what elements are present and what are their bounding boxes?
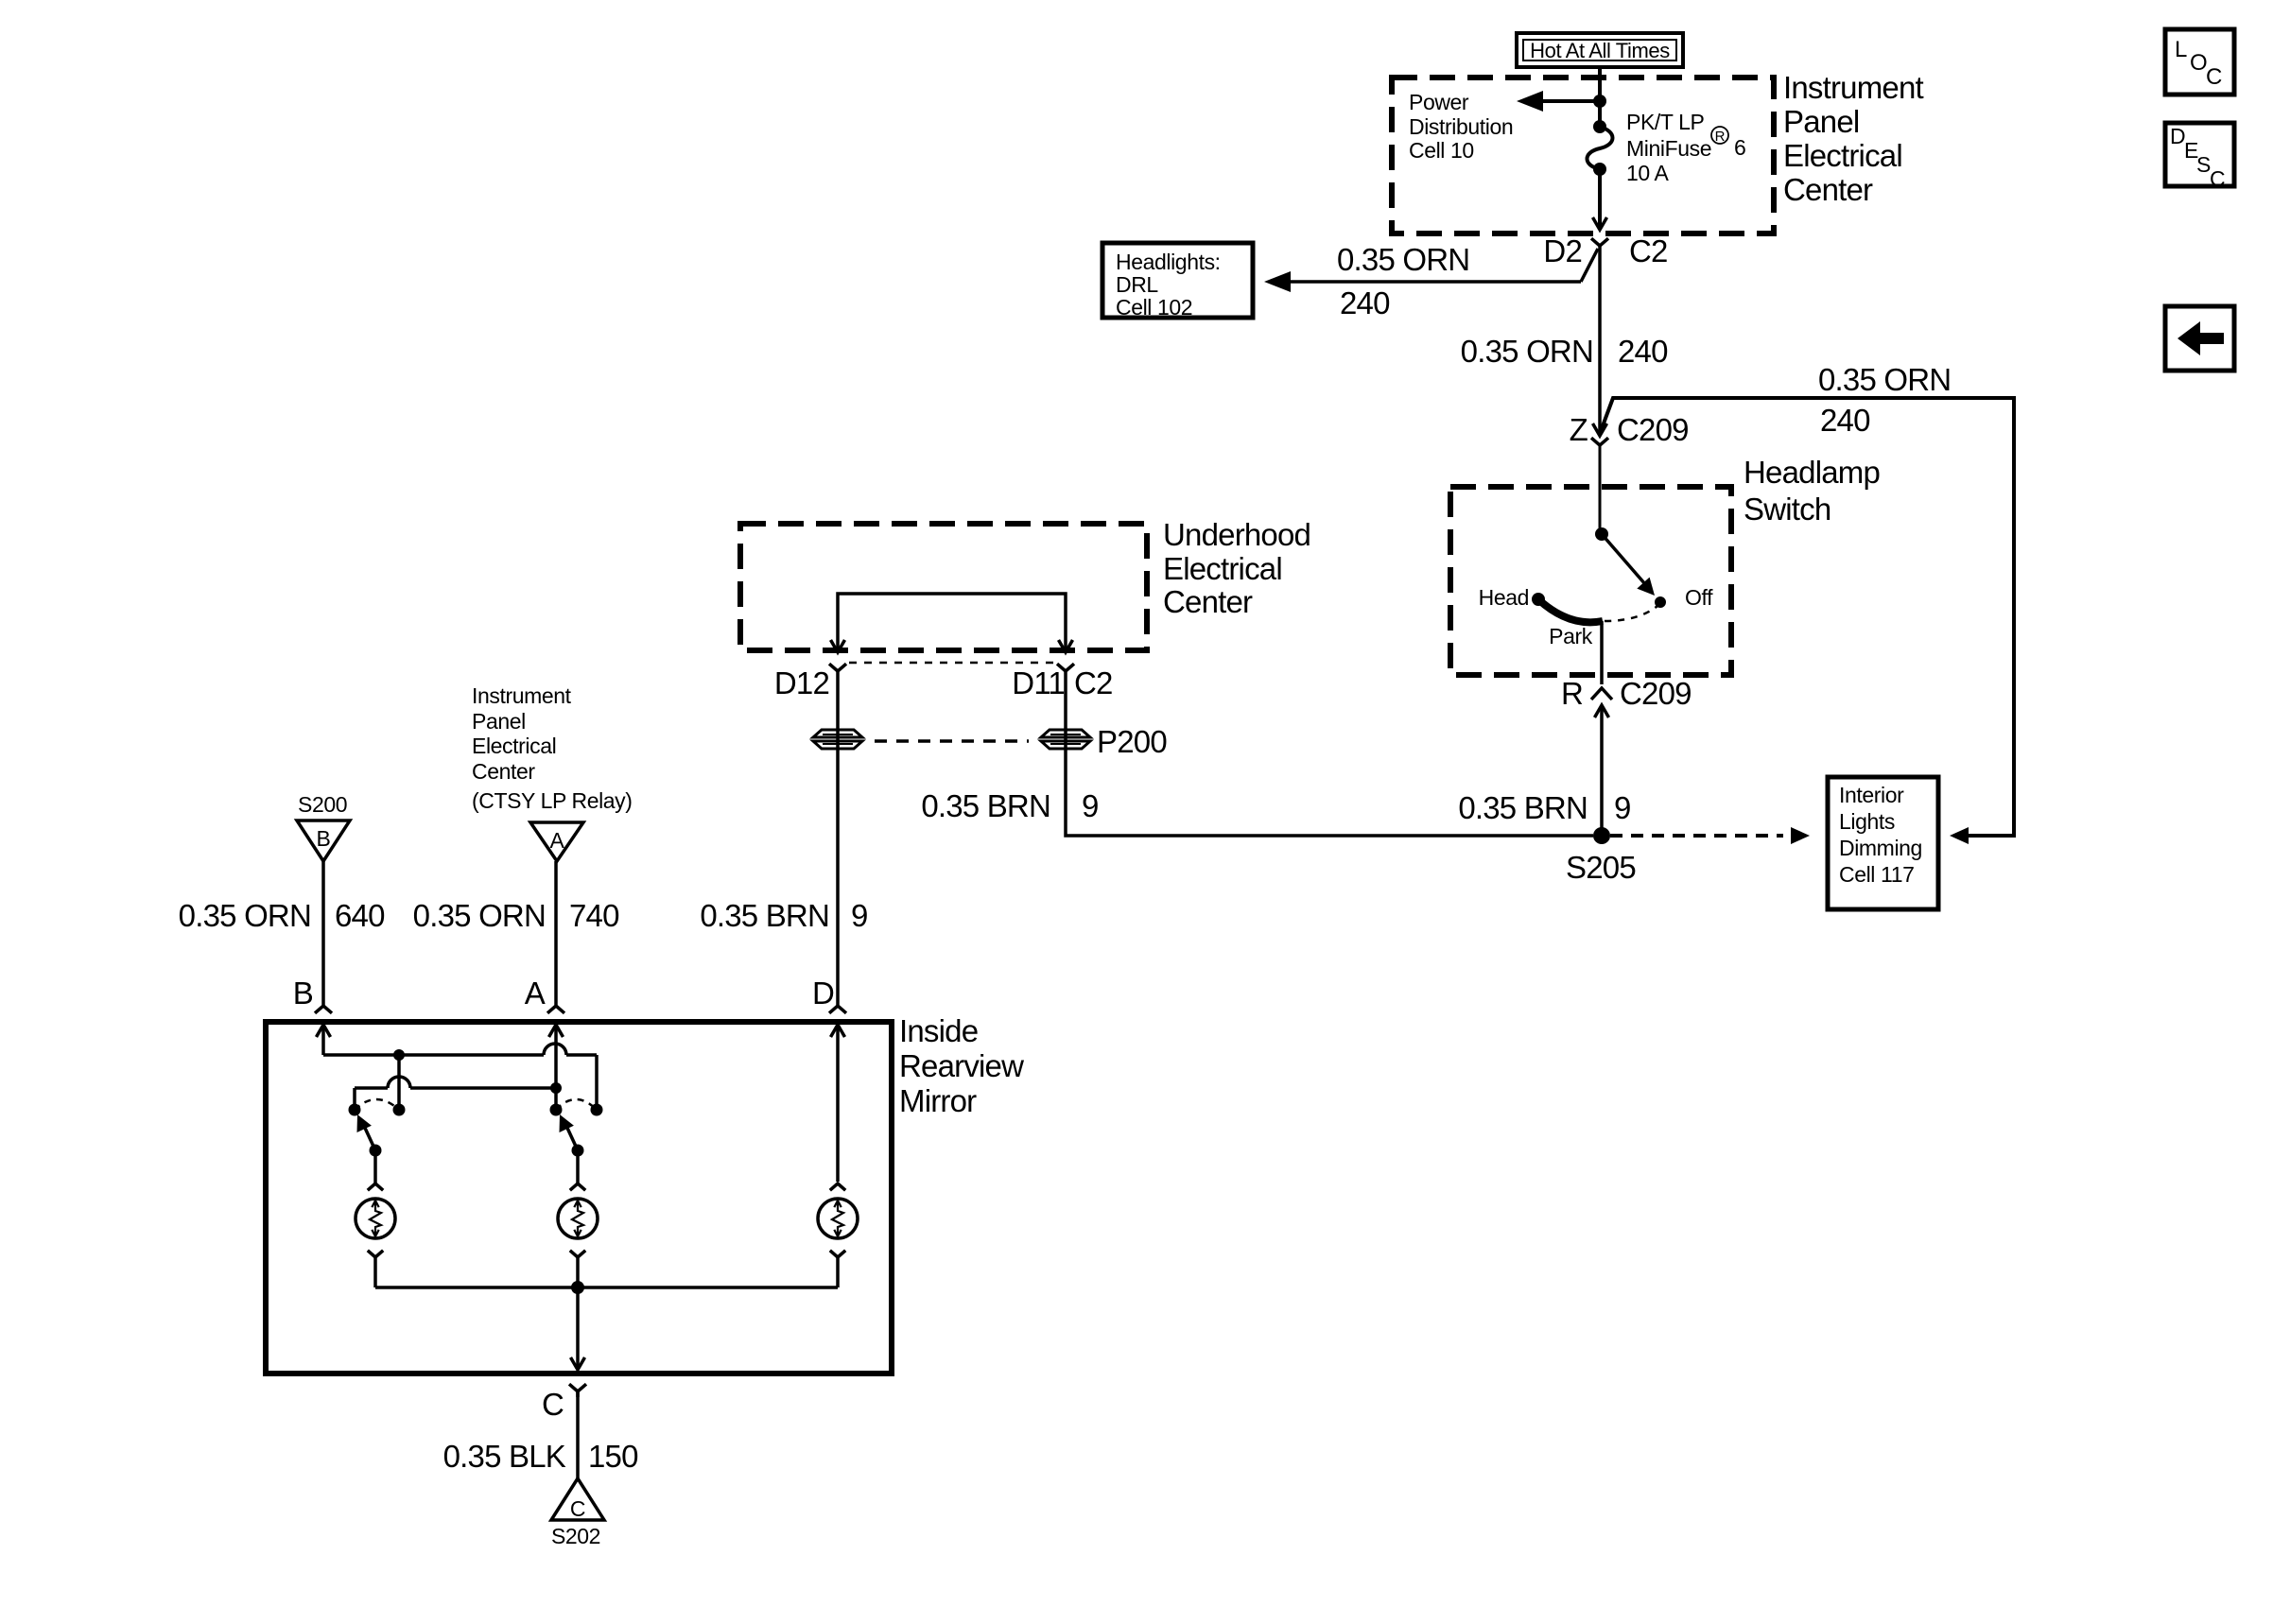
svg-text:10 A: 10 A [1626,161,1670,185]
svg-text:Center: Center [472,759,535,784]
svg-text:0.35 ORN: 0.35 ORN [179,898,311,933]
label 0.35 ORN 240 (loop) [1818,362,1951,438]
svg-text:R: R [1561,676,1583,711]
svg-text:A: A [525,976,546,1011]
splice S200 label [298,792,347,817]
triangle connector B from S200 [297,821,350,861]
jumper wire D12 to D11 [831,594,1073,652]
svg-text:Headlights:: Headlights: [1116,250,1221,274]
power feed box "Hot At All Times" [1517,33,1683,67]
svg-text:Headlamp: Headlamp [1744,455,1880,490]
Interior Lights Dimming Cell 117 box [1828,777,1938,909]
svg-text:Electrical: Electrical [472,734,556,758]
svg-text:150: 150 [588,1439,638,1474]
wire Z to switch common [1599,445,1602,532]
dashed wire S205 to Interior Lights Dimming [1610,827,1810,844]
svg-text:C2: C2 [1074,665,1113,700]
label 0.35 BRN 9 (mirror D leg) [700,898,867,933]
svg-text:C: C [2206,64,2222,90]
svg-text:Panel: Panel [472,709,526,734]
svg-text:Interior: Interior [1839,783,1904,807]
svg-text:Cell 102: Cell 102 [1116,295,1192,320]
connector C2 pin D2 [1543,233,1667,268]
label 0.35 ORN 640 [179,898,385,933]
connector B at mirror [293,976,332,1055]
label Underhood Electrical Center [1163,517,1310,619]
connector D11 C2 [1012,664,1112,700]
Headlamp Switch dashed box [1450,487,1731,675]
svg-text:O: O [2190,50,2207,76]
label 0.35 ORN 240 (DRL branch) [1337,242,1469,320]
contact Head [1479,585,1545,610]
back-arrow legend box [2165,306,2234,371]
svg-text:B: B [293,976,313,1011]
svg-text:Lights: Lights [1839,809,1895,834]
svg-text:S: S [2196,152,2211,177]
svg-text:D2: D2 [1543,233,1582,268]
label 0.35 BRN 9 (P200 leg) [921,788,1098,823]
svg-text:L: L [2175,37,2187,62]
wire R to S205 0.35 BRN 9 [1600,705,1604,836]
svg-text:740: 740 [569,898,619,933]
connector C209 pin Z [1570,412,1689,447]
label Instrument Panel Electrical Center (CTSY LP Relay) [472,683,633,813]
dashed arc Park-Off [1605,606,1657,621]
connector C at mirror bottom [542,1384,586,1422]
fuse F6 (PK/T LP MiniFuse 6) [1588,120,1613,176]
lamp right [818,1183,858,1287]
svg-text:240: 240 [1618,334,1668,369]
Underhood Electrical Center dashed box [740,524,1147,650]
wire D12 through P200 [836,671,840,1005]
ground bus in mirror [375,1281,838,1294]
svg-text:9: 9 [851,898,868,933]
svg-text:0.35 ORN: 0.35 ORN [413,898,546,933]
node row2 junction [550,1082,562,1094]
label Power Distribution Cell 10 [1409,90,1513,163]
svg-text:PK/T LP: PK/T LP [1626,110,1704,134]
connector D12 [774,664,846,700]
svg-text:6: 6 [1734,135,1745,160]
svg-text:C: C [542,1387,564,1422]
switch common node [1595,527,1608,541]
contact Off [1655,585,1713,610]
mirror switch 2 blade [560,1114,584,1157]
svg-text:Head: Head [1479,585,1529,610]
wire row2 from A [355,1077,556,1110]
svg-text:0.35 BRN: 0.35 BRN [700,898,829,933]
svg-text:Rearview: Rearview [899,1048,1024,1083]
pass-through grommet P200 left [813,730,862,749]
svg-text:0.35 ORN: 0.35 ORN [1461,334,1593,369]
svg-text:Power: Power [1409,90,1469,114]
lamp middle [558,1183,598,1287]
svg-text:S200: S200 [298,792,347,817]
lamp left [356,1183,395,1287]
svg-text:MiniFuse: MiniFuse [1626,136,1711,161]
svg-text:S205: S205 [1566,850,1636,885]
svg-text:R: R [1715,129,1726,145]
svg-text:240: 240 [1820,403,1870,438]
svg-text:Distribution: Distribution [1409,114,1513,139]
label 0.35 ORN 740 [413,898,619,933]
headlamp switch blade [1602,534,1655,596]
Headlights DRL Cell 102 box [1102,243,1253,320]
label Park [1549,624,1593,648]
svg-text:Instrument: Instrument [1783,70,1924,105]
svg-text:Panel: Panel [1783,104,1859,139]
svg-text:Instrument: Instrument [472,683,572,708]
wire fuse to connector C2 [1593,169,1607,230]
wire switch2 to lamp2 [576,1150,580,1183]
Instrument Panel Electrical Center dashed box [1392,78,1774,233]
wire hot feed vertical [1598,67,1602,127]
wire D11 to S205 0.35 BRN 9 [1066,671,1593,836]
splice S205 [1566,827,1636,885]
label Headlamp Switch [1744,455,1880,527]
svg-text:Off: Off [1685,585,1713,610]
svg-text:C: C [570,1496,585,1521]
arrow to Power Distribution [1517,91,1600,112]
svg-text:0.35 BLK: 0.35 BLK [443,1439,566,1474]
wire bus to C connector [571,1287,585,1370]
svg-text:Z: Z [1570,412,1588,447]
svg-text:9: 9 [1082,788,1099,823]
label Instrument Panel Electrical Center [1783,70,1924,207]
node branch junction [1593,95,1606,108]
wire Park to R C209 [1600,621,1604,684]
label 0.35 BLK 150 [443,1439,638,1474]
label Inside Rearview Mirror [899,1013,1024,1118]
wire C to S202 0.35 BLK 150 [576,1391,580,1478]
mirror switch 2 contacts [550,1099,603,1116]
svg-text:9: 9 [1614,790,1631,825]
svg-text:Hot At All Times: Hot At All Times [1530,39,1670,62]
triangle connector A (CTSY LP relay) [530,822,583,861]
svg-text:Electrical: Electrical [1783,138,1902,173]
svg-text:Switch: Switch [1744,492,1831,527]
mirror switch 1 blade [357,1114,382,1157]
connector mating dashed line D12-D11 [849,662,1055,665]
wire A drop to switch [554,1088,558,1110]
svg-text:0.35 ORN: 0.35 ORN [1337,242,1469,277]
node row1 junction [393,1049,405,1061]
Inside Rearview Mirror box [266,1022,892,1373]
svg-text:S202: S202 [551,1524,600,1548]
label fuse PK/T LP MiniFuse 6 10 A [1626,110,1745,185]
svg-text:C209: C209 [1620,676,1692,711]
connector A at mirror [525,976,564,1087]
svg-text:0.35 BRN: 0.35 BRN [1458,790,1588,825]
svg-text:Inside: Inside [899,1013,978,1048]
svg-text:D: D [2170,124,2185,148]
svg-text:240: 240 [1340,285,1390,320]
svg-text:A: A [550,828,565,853]
svg-text:C2: C2 [1629,233,1668,268]
svg-text:C209: C209 [1617,412,1689,447]
connector C209 pin R [1561,676,1692,717]
svg-text:C: C [2210,166,2225,191]
wire row1 drop to left switch [397,1055,401,1110]
svg-text:D: D [812,976,834,1011]
svg-text:DRL: DRL [1116,272,1158,297]
label 0.35 BRN 9 (switch leg) [1458,790,1630,825]
svg-text:Underhood: Underhood [1163,517,1310,552]
switch wiper arc Head-Park [1538,599,1603,622]
svg-text:Dimming: Dimming [1839,836,1922,860]
LOC legend box [2165,29,2234,95]
svg-text:(CTSY LP Relay): (CTSY LP Relay) [472,788,633,813]
svg-text:B: B [317,826,331,851]
dashed line P200 pair [875,739,1029,743]
svg-text:Electrical: Electrical [1163,551,1282,586]
wire switch1 to lamp1 [373,1150,377,1183]
svg-text:640: 640 [335,898,385,933]
svg-text:D11: D11 [1012,665,1065,700]
svg-text:0.35 ORN: 0.35 ORN [1818,362,1951,397]
svg-text:Center: Center [1163,584,1253,619]
svg-text:Park: Park [1549,624,1593,648]
label 0.35 ORN 240 (vertical run) [1461,334,1668,369]
svg-text:Center: Center [1783,172,1873,207]
connector D at mirror [812,976,846,1182]
mirror switch 1 contacts [349,1099,406,1116]
wire 0.35 ORN 240 loop to dimming [1601,398,2014,844]
svg-text:D12: D12 [774,665,829,700]
svg-text:Mirror: Mirror [899,1083,977,1118]
DESC legend box [2165,123,2234,191]
svg-text:P200: P200 [1097,724,1167,759]
wire C2 to Z C209 vertical [1593,260,1607,436]
pass-through grommet P200 right [1041,724,1167,759]
ground splice S202 triangle C [551,1478,604,1548]
wire row1 from B [323,1044,597,1110]
wire 0.35 ORN 240 branch to DRL [1264,249,1598,292]
svg-text:0.35 BRN: 0.35 BRN [921,788,1050,823]
wire A to mirror 0.35 ORN 740 [554,861,558,1005]
svg-text:Cell 10: Cell 10 [1409,138,1474,163]
svg-text:Cell 117: Cell 117 [1839,862,1914,887]
wire S200-B to mirror 0.35 ORN 640 [321,861,325,1005]
